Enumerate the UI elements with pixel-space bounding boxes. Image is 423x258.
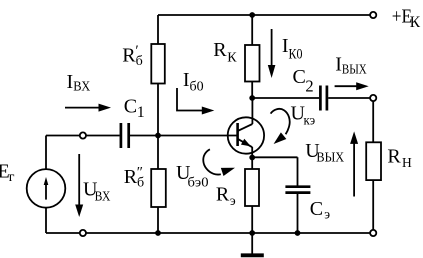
resistor R'б bbox=[151, 44, 165, 84]
wire left source branch top bbox=[45, 136, 47, 169]
arrow Ivx bbox=[65, 107, 100, 109]
arrowhead Uvx bbox=[75, 205, 83, 218]
node junction dot base bbox=[155, 133, 161, 139]
node junction dot R''b bottom bbox=[155, 230, 161, 236]
svg-text:2: 2 bbox=[305, 76, 313, 95]
svg-text:К: К bbox=[410, 14, 421, 31]
svg-text:R: R bbox=[216, 184, 230, 206]
wire terminal to C1 bbox=[86, 135, 119, 137]
arrow Ivyx bbox=[335, 85, 357, 87]
source Eг circle bbox=[27, 169, 66, 208]
node input top terminal bbox=[80, 132, 86, 138]
svg-text:R: R bbox=[124, 166, 138, 188]
svg-text:ВХ: ВХ bbox=[73, 78, 90, 93]
transistor base bar bbox=[236, 123, 239, 146]
svg-text:ВХ: ВХ bbox=[95, 189, 111, 204]
wire C1 to base node bbox=[130, 135, 158, 137]
resistor Rн bbox=[366, 142, 381, 180]
wire top rail bbox=[158, 14, 370, 16]
arrowhead Ivyx bbox=[356, 82, 369, 90]
svg-text:I: I bbox=[335, 53, 342, 75]
svg-text:R: R bbox=[387, 145, 401, 167]
wire R''b branch bottom bbox=[157, 207, 159, 233]
resistor R''б bbox=[151, 169, 166, 207]
ground bbox=[251, 233, 253, 254]
arrow Uvx down bbox=[78, 154, 80, 206]
svg-text:C: C bbox=[124, 96, 137, 118]
wire emitter down bbox=[251, 147, 253, 169]
wire emitter to Cэ bbox=[252, 157, 297, 185]
svg-text:C: C bbox=[310, 198, 323, 220]
node output top terminal bbox=[370, 95, 376, 101]
node junction dot top rail Rk bbox=[249, 12, 255, 18]
wire R'b branch top bbox=[157, 15, 159, 44]
wire output branch to Rн bbox=[372, 101, 374, 142]
arrowhead Ube0 bbox=[221, 164, 236, 176]
wire R''b branch top bbox=[157, 136, 159, 170]
svg-text:б: б bbox=[137, 175, 144, 190]
svg-text:б: б bbox=[136, 54, 143, 69]
svg-text:R: R bbox=[122, 44, 136, 66]
svg-text:э: э bbox=[324, 207, 330, 222]
svg-text:I: I bbox=[67, 71, 74, 93]
arrowhead Uvyx bbox=[350, 131, 358, 144]
transistor collector lead bbox=[238, 124, 253, 131]
node junction dot Rэ bottom bbox=[249, 230, 255, 236]
transistor emitter arrowhead bbox=[241, 139, 253, 150]
arrowhead Ivx bbox=[99, 104, 112, 112]
svg-text:К0: К0 bbox=[289, 46, 303, 62]
svg-text:бэ0: бэ0 bbox=[188, 175, 209, 190]
svg-text:ВЫХ: ВЫХ bbox=[342, 62, 367, 77]
node junction dot collector bbox=[249, 95, 255, 101]
svg-text:C: C bbox=[293, 66, 306, 88]
svg-text:1: 1 bbox=[137, 104, 145, 121]
wire Rн to bottom terminal bbox=[372, 180, 374, 230]
arrow Ik0 bbox=[271, 29, 273, 66]
wire Rk branch top bbox=[251, 15, 253, 45]
svg-text:б0: б0 bbox=[190, 79, 204, 94]
node junction dot Cэ bottom bbox=[295, 230, 301, 236]
svg-text:К: К bbox=[227, 51, 237, 66]
arrowhead Ik0 bbox=[268, 65, 276, 78]
arrow source internal bbox=[45, 181, 47, 200]
node junction dot emitter bbox=[249, 155, 255, 161]
capacitor C2 bbox=[320, 86, 327, 111]
node +Ek terminal bbox=[370, 12, 376, 18]
wire base node to transistor bbox=[158, 135, 238, 137]
wire left source branch bottom bbox=[45, 208, 47, 233]
transistor emitter lead bbox=[238, 139, 253, 147]
capacitor Cэ bbox=[285, 187, 310, 193]
wire collector node to C2 bbox=[252, 97, 319, 99]
wire R'b branch bottom bbox=[157, 84, 159, 136]
arrow Uke arc bbox=[271, 109, 290, 134]
transistor VT circle bbox=[228, 117, 264, 153]
node input bottom terminal bbox=[80, 230, 86, 236]
wire C2 to output terminal bbox=[328, 97, 370, 99]
svg-text:R: R bbox=[213, 39, 227, 61]
svg-text:кэ: кэ bbox=[304, 113, 316, 128]
arrow Ube0 arc bbox=[203, 149, 221, 174]
svg-text:ВЫХ: ВЫХ bbox=[316, 150, 344, 165]
wire Cэ bottom bbox=[297, 194, 299, 233]
svg-text:Н: Н bbox=[402, 155, 412, 170]
svg-text:э: э bbox=[230, 193, 236, 208]
arrow Uvyx up bbox=[353, 142, 355, 197]
wire Rэ bottom bbox=[251, 206, 253, 233]
resistor RK bbox=[245, 45, 260, 82]
svg-text:г: г bbox=[9, 170, 15, 185]
wire input left segment bbox=[46, 135, 80, 137]
wire Rk to collector node bbox=[251, 82, 253, 99]
arrow Ub0 bent bbox=[177, 88, 203, 111]
capacitor C1 bbox=[121, 123, 129, 148]
arrowhead Ib0 bbox=[202, 107, 215, 115]
wire collector bbox=[251, 98, 253, 124]
resistor Rэ bbox=[245, 169, 259, 206]
wire bottom rail bbox=[46, 232, 370, 234]
node output bottom terminal bbox=[370, 230, 376, 236]
arrowhead source bbox=[44, 177, 49, 185]
arrowhead Uke bbox=[271, 132, 287, 147]
